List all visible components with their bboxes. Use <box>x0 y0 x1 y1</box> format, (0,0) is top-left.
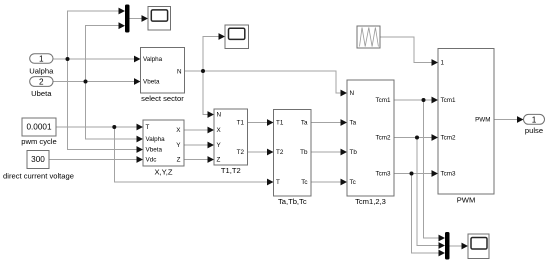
svg-text:Tcm2: Tcm2 <box>375 135 391 142</box>
block X,Y,Z <box>143 120 184 176</box>
svg-text:2: 2 <box>39 78 44 87</box>
svg-text:N: N <box>177 68 182 75</box>
arrowhead: into select sector Vbeta <box>134 78 141 85</box>
svg-text:1: 1 <box>441 60 445 67</box>
wire: X,Y,Z X output to T1,T2 X input <box>184 129 208 131</box>
mux M2 <box>445 232 450 260</box>
arrowhead: into T1,T2 Y <box>208 142 215 149</box>
wire: N branch down to T1,T2 N input <box>203 71 208 115</box>
svg-text:Tcm1: Tcm1 <box>441 97 457 104</box>
wire: X,Y,Z Z output to T1,T2 Z input <box>184 159 208 161</box>
wire: T1,T2 T1 output to Ta,Tb,Tc T1 input <box>248 122 268 124</box>
svg-text:T: T <box>146 124 150 131</box>
arrowhead: into X,Y,Z Valpha <box>137 136 144 143</box>
svg-text:T2: T2 <box>237 149 245 156</box>
arrowhead: into Mux1 input 2 <box>119 22 126 29</box>
wire: N branch up to Scope2 <box>203 37 221 72</box>
wire: Ualpha branch up to Mux1 input 1 <box>68 11 122 59</box>
arrowhead: into PWM Tcm2 <box>432 134 439 141</box>
arrowhead: into T1,T2 N <box>208 111 215 118</box>
svg-text:Valpha: Valpha <box>146 136 166 143</box>
wire: Tcm2 branch down to Mux2 input 2 <box>417 138 441 246</box>
svg-text:T: T <box>276 179 280 186</box>
wire: Ubeta branch down to X,Y,Z Valpha input <box>86 82 140 140</box>
inport 1 Ualpha <box>29 54 54 76</box>
svg-text:Ualpha: Ualpha <box>29 66 54 75</box>
block Ta,Tb,Tc <box>274 110 312 206</box>
junction: Tcm3 wire <box>410 172 414 176</box>
svg-text:0.0001: 0.0001 <box>26 123 51 132</box>
arrowhead: into T1,T2 X <box>208 127 215 134</box>
wire: Ualpha branch down to X,Y,Z Vbeta input <box>68 59 140 150</box>
wire: Tcm1 branch down to Mux2 input 1 <box>424 100 442 238</box>
arrowhead: into Ta,Tb,Tc T2 <box>267 149 274 156</box>
svg-text:N: N <box>217 112 222 119</box>
wire: Tcm2 output to PWM Tcm2 input <box>394 137 434 139</box>
svg-text:1: 1 <box>39 55 44 64</box>
arrowhead: into PWM Tcm3 <box>432 170 439 177</box>
wire: Ta,Tb,Tc Tb output to Tcm1,2,3 Tb input <box>311 151 341 153</box>
junction: Ualpha wire <box>66 57 70 61</box>
svg-text:Ta: Ta <box>301 120 308 127</box>
svg-text:T1: T1 <box>237 120 245 127</box>
arrowhead: into T1,T2 Z <box>208 156 215 163</box>
wire: Ubeta port to select sector Vbeta <box>53 81 136 83</box>
wire: direct current voltage constant to X,Y,Z Vdc input <box>49 159 139 161</box>
arrowhead: into Scope3 <box>462 243 469 250</box>
scope Scope2 <box>225 25 249 49</box>
scope Scope1 <box>148 7 171 31</box>
svg-text:1: 1 <box>532 115 537 124</box>
svg-text:Ta,Tb,Tc: Ta,Tb,Tc <box>278 197 307 206</box>
svg-text:Tcm3: Tcm3 <box>375 171 391 178</box>
arrowhead: into Ta,Tb,Tc T <box>267 179 274 186</box>
junction: Ubeta wire <box>84 80 88 84</box>
arrowhead: into Scope2 <box>219 33 226 40</box>
arrowhead: into Tcm1,2,3 Ta <box>341 119 348 126</box>
wire: Ta,Tb,Tc Ta output to Tcm1,2,3 Ta input <box>311 122 341 124</box>
arrowhead: into X,Y,Z T <box>137 124 144 131</box>
arrowhead: into select sector Valpha <box>134 56 141 63</box>
svg-text:Vbeta: Vbeta <box>146 147 163 154</box>
svg-text:pulse: pulse <box>525 126 543 135</box>
junction: Tcm2 wire <box>415 136 419 140</box>
wire: Tcm3 branch down to Mux2 input 3 <box>412 174 442 254</box>
wire: Ubeta branch up to Mux1 input 2 <box>86 26 122 82</box>
arrowhead: into Mux2 input 3 <box>439 250 446 257</box>
junction: pwm cycle wire <box>112 125 116 129</box>
wire: Mux1 output to Scope1 <box>130 18 145 20</box>
constant pwm cycle (0.0001) <box>21 118 56 146</box>
wire: X,Y,Z Y output to T1,T2 Y input <box>184 144 208 146</box>
arrowhead: into Scope1 <box>142 15 149 22</box>
svg-text:Tb: Tb <box>300 149 308 156</box>
svg-text:Z: Z <box>217 157 221 164</box>
arrowhead: into X,Y,Z Vdc <box>137 156 144 163</box>
arrowhead: into PWM Tcm1 <box>432 97 439 104</box>
svg-text:N: N <box>350 90 355 97</box>
inport 2 Ubeta <box>30 77 53 98</box>
junction: N wire <box>201 69 205 73</box>
wire: pwm cycle branch down to Ta,Tb,Tc T input <box>114 127 267 182</box>
svg-text:Z: Z <box>177 157 181 164</box>
scope Scope3 <box>468 234 489 259</box>
arrowhead: into Ta,Tb,Tc T1 <box>267 119 274 126</box>
arrowhead: into Tcm1,2,3 Tc <box>341 179 348 186</box>
svg-text:Tcm2: Tcm2 <box>441 135 457 142</box>
outport 1 pulse <box>524 114 545 134</box>
svg-text:Tcm1,2,3: Tcm1,2,3 <box>355 197 386 206</box>
svg-text:Ubeta: Ubeta <box>31 89 52 98</box>
wire: select sector N output to Tcm1,2,3 N input <box>185 71 344 93</box>
svg-text:PWM: PWM <box>457 196 476 205</box>
svg-text:pwm cycle: pwm cycle <box>21 137 56 146</box>
svg-text:select sector: select sector <box>141 94 184 103</box>
arrowhead: into PWM input 1 <box>432 59 439 66</box>
wire: pwm cycle constant to X,Y,Z T input <box>56 126 139 128</box>
svg-text:X,Y,Z: X,Y,Z <box>154 167 172 176</box>
wire: repeating sequence to PWM input 1 <box>380 37 434 63</box>
wire: PWM output to pulse outport <box>494 119 518 121</box>
wire: Tcm3 output to PWM Tcm3 input <box>394 173 434 175</box>
arrowhead: into X,Y,Z Vbeta <box>137 146 144 153</box>
wire: Mux2 output to Scope3 <box>450 245 465 247</box>
svg-text:T1,T2: T1,T2 <box>221 166 241 175</box>
block select sector <box>141 48 185 103</box>
svg-text:Tb: Tb <box>350 149 358 156</box>
svg-text:Tc: Tc <box>301 179 307 186</box>
svg-text:300: 300 <box>31 155 45 164</box>
svg-text:T1: T1 <box>276 120 284 127</box>
wire: Ualpha port to select sector Valpha <box>53 58 136 60</box>
arrowhead: into Tcm1,2,3 N <box>341 90 348 97</box>
svg-text:Tcm3: Tcm3 <box>441 171 457 178</box>
svg-text:Valpha: Valpha <box>143 56 163 63</box>
block Tcm1,2,3 <box>347 80 394 206</box>
svg-text:Tc: Tc <box>350 179 356 186</box>
svg-text:Vdc: Vdc <box>146 157 157 164</box>
junction: Tcm1 wire <box>422 98 426 102</box>
arrowhead: into pulse outport <box>517 116 524 123</box>
svg-text:Tcm1: Tcm1 <box>375 97 391 104</box>
wire: T1,T2 T2 output to Ta,Tb,Tc T2 input <box>248 151 268 153</box>
block T1,T2 <box>214 109 248 175</box>
block PWM <box>438 49 494 205</box>
mux M1 <box>125 5 130 33</box>
svg-text:direct current voltage: direct current voltage <box>3 171 74 180</box>
arrowhead: into Mux2 input 1 <box>439 235 446 242</box>
arrowhead: into Tcm1,2,3 Tb <box>341 149 348 156</box>
wire: Ta,Tb,Tc Tc output to Tcm1,2,3 Tc input <box>311 181 341 183</box>
arrowhead: into Mux2 input 2 <box>439 242 446 249</box>
svg-text:PWM: PWM <box>475 117 490 124</box>
arrowhead: into Mux1 input 1 <box>119 8 126 15</box>
wire: Tcm1 output to PWM Tcm1 input <box>394 99 434 101</box>
svg-text:Vbeta: Vbeta <box>143 79 160 86</box>
repeating sequence (triangle wave) <box>357 26 380 48</box>
svg-text:T2: T2 <box>276 149 284 156</box>
constant direct current voltage (300) <box>3 151 74 181</box>
svg-text:Ta: Ta <box>350 120 357 127</box>
